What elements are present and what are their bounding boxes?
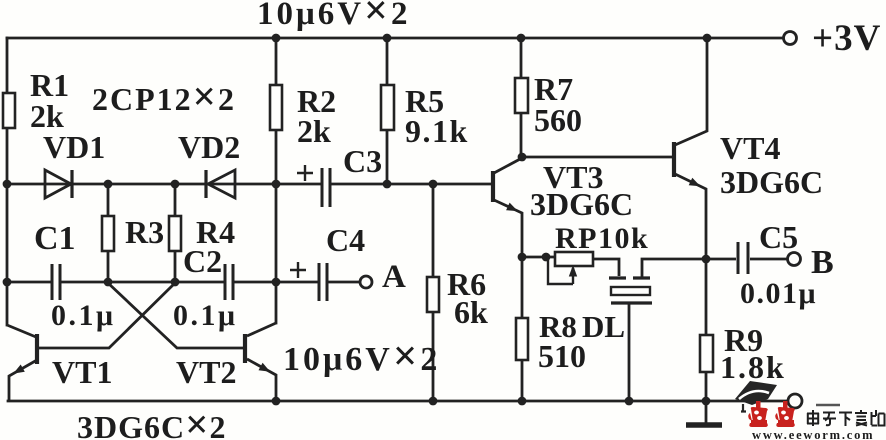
terminal A <box>360 276 372 288</box>
resistor R3 <box>102 216 114 251</box>
svg-text:3DG6C: 3DG6C <box>530 186 633 222</box>
svg-text:VT4: VT4 <box>720 130 780 166</box>
svg-text:6k: 6k <box>454 294 488 330</box>
terminal +3V <box>784 32 797 45</box>
resistor R9 <box>700 335 713 372</box>
wire R3 column <box>107 184 110 282</box>
svg-text:2k: 2k <box>297 113 331 149</box>
svg-text:0.1μ: 0.1μ <box>51 299 116 332</box>
ceramic filter DL <box>609 259 706 401</box>
wire R2 column <box>275 38 278 323</box>
terminal B <box>788 253 801 266</box>
watermark logo cap <box>735 381 777 412</box>
svg-text:C2: C2 <box>183 243 222 279</box>
wire C5 row <box>706 258 787 261</box>
resistor R5 <box>381 85 394 130</box>
svg-text:RP10k: RP10k <box>555 222 649 255</box>
capacitor C4 <box>290 262 327 301</box>
svg-text:C5: C5 <box>759 219 798 255</box>
resistor R8 <box>516 318 528 360</box>
terminal ground output <box>788 394 802 408</box>
watermark site name glyphs <box>807 410 885 426</box>
capacitor C1 <box>52 264 60 300</box>
transistor VT3 <box>493 158 522 257</box>
svg-text:C4: C4 <box>326 222 365 258</box>
wire R8 column <box>521 257 524 401</box>
svg-text:VT1: VT1 <box>52 354 112 390</box>
wire R4 column <box>174 184 177 282</box>
svg-text:10μ6V×2: 10μ6V×2 <box>257 0 410 34</box>
svg-text:VD2: VD2 <box>178 129 240 165</box>
watermark gray dash <box>816 404 840 407</box>
wire left rail (R1/VD1/C1 column) <box>6 38 9 325</box>
watermark red bug 2 <box>775 401 795 427</box>
svg-text:VT2: VT2 <box>176 354 236 390</box>
svg-text:www.eeworm.com: www.eeworm.com <box>752 428 874 440</box>
ground <box>686 401 722 425</box>
resistor R4 <box>169 216 181 251</box>
svg-text:VD1: VD1 <box>43 129 105 165</box>
wire VT3 emitter row to RP <box>522 256 555 259</box>
wire R7 column <box>520 38 523 157</box>
svg-text:B: B <box>811 244 834 281</box>
resistor R1 <box>3 93 15 128</box>
svg-text:DL: DL <box>582 309 625 344</box>
resistor R7 <box>515 78 528 113</box>
wire R6 column <box>432 184 435 401</box>
wire bottom ground rail <box>8 400 788 403</box>
watermark red bug 1 <box>748 401 768 427</box>
wire R5 column <box>386 38 389 184</box>
svg-text:10μ6V×2: 10μ6V×2 <box>283 333 440 380</box>
diode VD2 <box>206 170 235 198</box>
transistor VT4 <box>674 38 707 259</box>
capacitor C3 <box>297 165 330 207</box>
svg-text:3DG6C: 3DG6C <box>720 164 823 200</box>
wire C3 row to VT3 base <box>276 183 491 186</box>
svg-text:C1: C1 <box>34 220 76 257</box>
svg-text:1.8k: 1.8k <box>720 349 786 385</box>
svg-text:560: 560 <box>534 102 582 138</box>
svg-text:R3: R3 <box>125 214 164 250</box>
svg-text:9.1k: 9.1k <box>405 113 469 149</box>
svg-text:0.01μ: 0.01μ <box>740 277 817 310</box>
svg-text:C3: C3 <box>343 143 382 179</box>
wire diode row <box>7 183 276 186</box>
transistor VT2 <box>108 283 276 401</box>
svg-text:+3V: +3V <box>812 18 881 59</box>
wire VT3 collector to VT4 base <box>522 156 672 159</box>
capacitor C2 <box>225 264 233 300</box>
svg-text:A: A <box>382 259 406 295</box>
capacitor C5 <box>738 242 748 274</box>
svg-text:510: 510 <box>538 338 586 374</box>
wire capacitor row C1-C2-C4 <box>7 281 359 284</box>
svg-text:0.1μ: 0.1μ <box>173 299 238 332</box>
potentiometer RP <box>548 252 619 284</box>
diode VD1 <box>45 170 72 198</box>
wire top +3V rail <box>7 37 783 40</box>
wire R9 column <box>705 259 708 401</box>
transistor VT1 <box>7 283 175 401</box>
resistor R2 <box>270 85 282 130</box>
resistor R6 <box>427 277 439 312</box>
